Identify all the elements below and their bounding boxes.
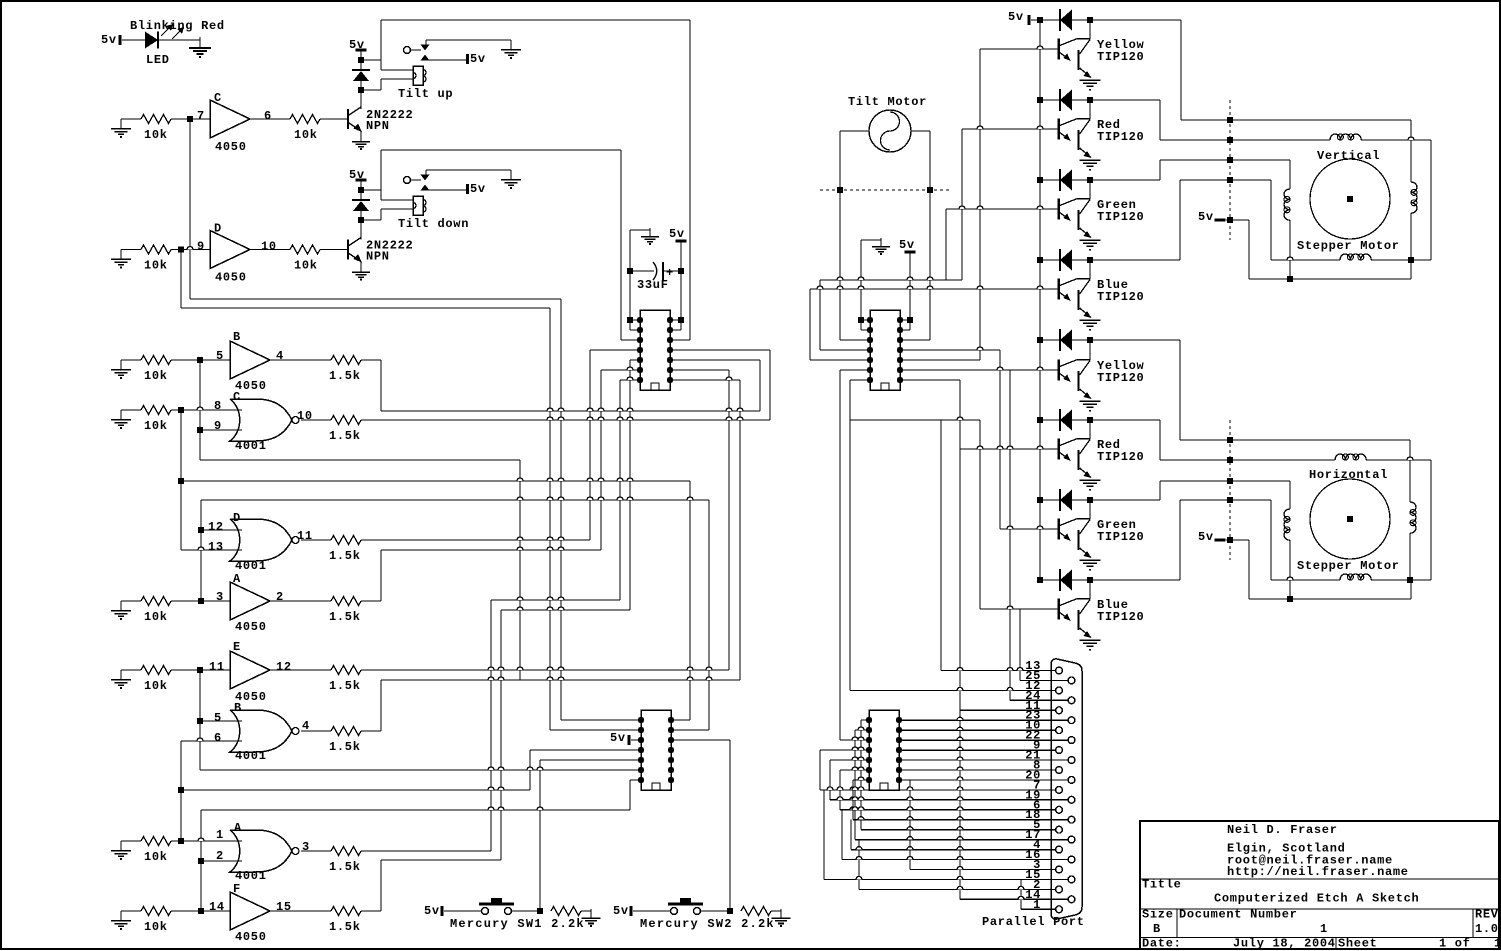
svg-text:B: B <box>233 330 241 344</box>
svg-text:10k: 10k <box>144 610 168 624</box>
svg-text:8: 8 <box>214 399 222 413</box>
svg-text:1.5k: 1.5k <box>329 920 361 934</box>
svg-text:2: 2 <box>216 849 224 863</box>
svg-text:Size: Size <box>1142 908 1174 922</box>
svg-text:Horizontal: Horizontal <box>1309 468 1388 482</box>
svg-text:5: 5 <box>216 349 224 363</box>
svg-text:5v: 5v <box>424 904 440 918</box>
svg-text:1.5k: 1.5k <box>329 429 361 443</box>
svg-text:11: 11 <box>297 529 313 543</box>
svg-text:Stepper Motor: Stepper Motor <box>1297 239 1400 253</box>
svg-text:TIP120: TIP120 <box>1097 130 1144 144</box>
svg-text:5v: 5v <box>1008 10 1024 24</box>
svg-text:Date:: Date: <box>1142 937 1182 951</box>
svg-text:1.0: 1.0 <box>1475 922 1499 936</box>
svg-text:A: A <box>234 821 242 835</box>
svg-text:4001: 4001 <box>235 559 267 573</box>
svg-text:9: 9 <box>214 419 222 433</box>
svg-text:5: 5 <box>214 711 222 725</box>
svg-text:1: 1 <box>1320 922 1328 936</box>
svg-text:1.5k: 1.5k <box>329 860 361 874</box>
svg-text:5v: 5v <box>101 33 117 47</box>
svg-text:5v: 5v <box>899 238 915 252</box>
svg-text:D: D <box>233 511 241 525</box>
svg-text:10k: 10k <box>294 128 318 142</box>
svg-text:7: 7 <box>197 109 205 123</box>
svg-text:12: 12 <box>208 520 224 534</box>
svg-text:6: 6 <box>214 731 222 745</box>
svg-text:Neil D. Fraser: Neil D. Fraser <box>1227 823 1338 837</box>
svg-text:1.5k: 1.5k <box>329 679 361 693</box>
svg-text:10k: 10k <box>144 128 168 142</box>
svg-text:Vertical: Vertical <box>1317 149 1380 163</box>
svg-text:5v: 5v <box>1198 530 1214 544</box>
svg-text:B: B <box>234 701 242 715</box>
svg-text:Tilt Motor: Tilt Motor <box>848 95 927 109</box>
svg-text:Sheet: Sheet <box>1338 937 1378 951</box>
svg-text:10k: 10k <box>144 419 168 433</box>
svg-text:C: C <box>233 390 241 404</box>
svg-text:TIP120: TIP120 <box>1097 530 1144 544</box>
svg-text:15: 15 <box>276 900 292 914</box>
svg-text:5v: 5v <box>1198 210 1214 224</box>
svg-text:4001: 4001 <box>235 439 267 453</box>
svg-text:2: 2 <box>276 590 284 604</box>
svg-text:NPN: NPN <box>366 119 390 133</box>
svg-text:Title: Title <box>1142 878 1182 892</box>
svg-text:5v: 5v <box>470 52 486 66</box>
svg-text:1.5k: 1.5k <box>329 369 361 383</box>
svg-text:TIP120: TIP120 <box>1097 290 1144 304</box>
svg-text:1: 1 <box>1033 898 1041 912</box>
svg-text:Stepper Motor: Stepper Motor <box>1297 559 1400 573</box>
svg-text:Mercury SW1 2.2k: Mercury SW1 2.2k <box>450 917 584 931</box>
svg-text:4: 4 <box>276 349 284 363</box>
svg-text:1.5k: 1.5k <box>329 610 361 624</box>
svg-text:TIP120: TIP120 <box>1097 50 1144 64</box>
svg-text:REV: REV <box>1475 908 1499 922</box>
svg-text:14: 14 <box>209 900 225 914</box>
svg-text:Blinking Red: Blinking Red <box>130 19 225 33</box>
svg-text:D: D <box>214 222 222 236</box>
svg-text:5v: 5v <box>613 904 629 918</box>
svg-text:LED: LED <box>146 53 170 67</box>
svg-text:5v: 5v <box>610 731 626 745</box>
svg-text:10k: 10k <box>294 259 318 273</box>
svg-text:Parallel Port: Parallel Port <box>982 915 1085 929</box>
svg-text:5v: 5v <box>669 227 685 241</box>
svg-text:4001: 4001 <box>235 869 267 883</box>
svg-text:July 18, 2004: July 18, 2004 <box>1233 937 1336 951</box>
svg-text:TIP120: TIP120 <box>1097 610 1144 624</box>
svg-text:TIP120: TIP120 <box>1097 210 1144 224</box>
svg-text:Computerized Etch A Sketch: Computerized Etch A Sketch <box>1214 892 1419 906</box>
svg-text:TIP120: TIP120 <box>1097 371 1144 385</box>
svg-text:4: 4 <box>302 719 310 733</box>
svg-text:Mercury SW2 2.2k: Mercury SW2 2.2k <box>640 917 774 931</box>
svg-text:11: 11 <box>209 660 225 674</box>
svg-text:3: 3 <box>216 590 224 604</box>
svg-text:10: 10 <box>261 240 277 254</box>
svg-text:E: E <box>233 640 241 654</box>
svg-text:5v: 5v <box>470 182 486 196</box>
svg-text:33uF: 33uF <box>637 278 669 292</box>
svg-text:5v: 5v <box>349 38 365 52</box>
svg-text:C: C <box>214 91 222 105</box>
svg-text:4001: 4001 <box>235 749 267 763</box>
svg-text:10k: 10k <box>144 850 168 864</box>
svg-text:F: F <box>233 882 241 896</box>
svg-text:Tilt up: Tilt up <box>398 87 453 101</box>
svg-text:4050: 4050 <box>235 620 267 634</box>
svg-text:4050: 4050 <box>215 140 247 154</box>
svg-text:13: 13 <box>208 540 224 554</box>
svg-text:A: A <box>233 572 241 586</box>
svg-text:3: 3 <box>302 840 310 854</box>
svg-text:1: 1 <box>216 828 224 842</box>
svg-text:1 of: 1 of <box>1439 937 1471 951</box>
svg-text:5v: 5v <box>349 168 365 182</box>
svg-text:Document Number: Document Number <box>1179 908 1298 922</box>
svg-text:10k: 10k <box>144 259 168 273</box>
svg-text:10k: 10k <box>144 679 168 693</box>
svg-text:TIP120: TIP120 <box>1097 450 1144 464</box>
svg-text:4050: 4050 <box>235 930 267 944</box>
svg-text:10: 10 <box>297 409 313 423</box>
svg-text:4050: 4050 <box>215 271 247 285</box>
svg-text:http://neil.fraser.name: http://neil.fraser.name <box>1227 865 1409 879</box>
svg-text:NPN: NPN <box>366 250 390 264</box>
svg-text:1.5k: 1.5k <box>329 549 361 563</box>
svg-text:9: 9 <box>197 240 205 254</box>
svg-text:10k: 10k <box>144 369 168 383</box>
svg-text:6: 6 <box>264 109 272 123</box>
svg-text:B: B <box>1153 922 1161 936</box>
svg-text:12: 12 <box>276 660 292 674</box>
svg-text:1: 1 <box>1494 937 1501 951</box>
svg-text:1.5k: 1.5k <box>329 740 361 754</box>
svg-text:10k: 10k <box>144 920 168 934</box>
svg-text:Tilt down: Tilt down <box>398 217 469 231</box>
